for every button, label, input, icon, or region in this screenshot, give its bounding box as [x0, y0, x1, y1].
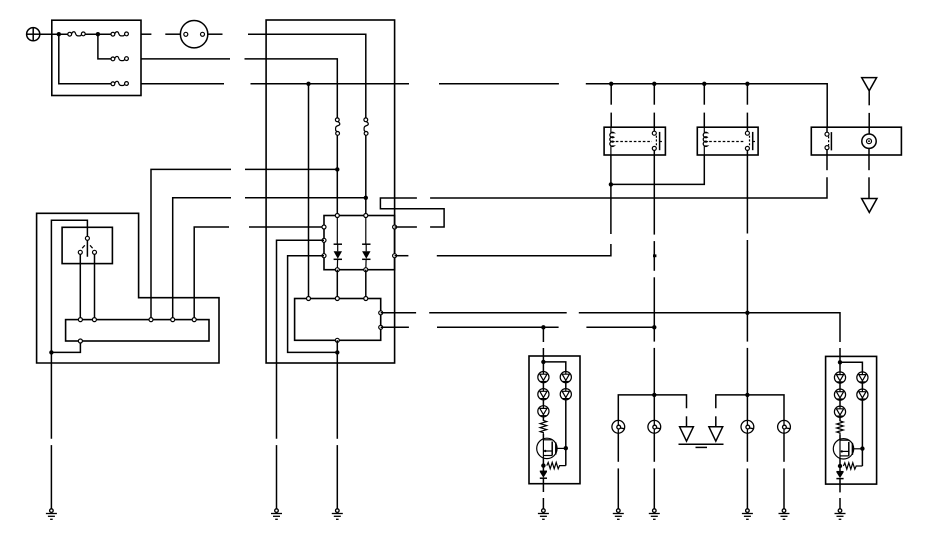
flasher terminal bottom — [335, 338, 339, 342]
wire W4 turn signal switch to relay (with connector break) — [151, 169, 337, 319]
wire fuse F4 power bus W3 (with connector breaks) — [141, 84, 827, 127]
wire relay2 contact feed (with connector break) — [746, 84, 748, 127]
wire LED unit left feed drop (with connector break) — [542, 327, 544, 356]
power antenna relay/motor box — [811, 127, 901, 155]
ground G9 (right LED unit) — [835, 509, 846, 520]
node: junction CB2 line with W5 — [364, 196, 368, 200]
wire relay box right2 to relay coils (with connector breaks) — [395, 184, 611, 255]
front turn signal bulb R2 — [778, 420, 791, 433]
wire relay box left3 joins flasher ground lead — [288, 256, 338, 353]
integrated control unit outer box — [266, 20, 395, 363]
connector terminal 2 — [92, 318, 96, 322]
relay box terminal (left 1) — [322, 225, 326, 229]
diode D1 — [334, 218, 342, 270]
wire hazard switch common feed — [51, 220, 87, 439]
wire CB1 to relay box terminal — [336, 135, 338, 215]
fuse F4 — [111, 81, 128, 85]
wire W5 turn signal switch to relay (with connector break) — [173, 198, 366, 320]
node: flasher ground junction — [335, 350, 339, 354]
node: bracket junction right — [745, 393, 749, 397]
fuse F1 — [68, 32, 85, 36]
relay R2 coil — [703, 127, 707, 155]
switch connector strip box — [66, 320, 209, 341]
relay box terminal (top 2) — [364, 214, 368, 218]
ground G6 (bulb L2) — [649, 509, 660, 520]
wire W8 left turn feed (with connector breaks) — [381, 326, 655, 328]
node: bus tap relay2 coil — [702, 82, 706, 86]
combination switch assembly outline — [37, 213, 219, 363]
wire right LED unit ground below break — [839, 498, 841, 509]
relay R1 contact — [654, 127, 662, 155]
wire F1 to F2 — [85, 33, 111, 35]
connector terminal 5 — [192, 318, 196, 322]
ground G5 (bulb L1) — [613, 509, 624, 520]
wire ignition switch to circuit breaker W1 (with connector break) — [208, 34, 366, 118]
wire bulb R2 ground lead (connector break) — [783, 433, 785, 509]
connector terminal 3 — [149, 318, 153, 322]
antenna relay terminal top — [825, 132, 829, 136]
fuse F3 — [111, 56, 128, 60]
ground G4 (left LED unit) — [538, 509, 549, 520]
wire hazard contact R to connector — [94, 254, 96, 317]
wire relay box left2 to ground G2 (with connector break) — [277, 240, 325, 509]
flasher terminal top2 — [335, 297, 339, 301]
ground G2 (relay box) — [271, 509, 282, 520]
wire W7 right turn feed (with connector breaks) — [381, 313, 840, 357]
wire relay1 coil feed (with connector break) — [610, 84, 612, 127]
front turn signal bulb R1 — [741, 420, 754, 433]
relay box terminal (left 2) — [322, 238, 326, 242]
ground G8 (bulb R2) — [779, 509, 790, 520]
fuse box (under-hood fuse/relay box) — [52, 20, 141, 95]
ground G3 (flasher) — [332, 509, 343, 520]
node: bus tap relay1 contact — [652, 82, 656, 86]
wire flasher ground lead (with connector break) — [336, 340, 338, 509]
relay R1 contact terminal bottom — [652, 146, 656, 150]
connector terminal 4 — [171, 318, 175, 322]
flasher terminal right1 — [379, 311, 383, 315]
node: junction CB1 line with W4 — [335, 167, 339, 171]
wire bulb L1 ground lead (connector break) — [617, 433, 619, 509]
relay R2 (right turn signal relay) box — [697, 127, 758, 155]
antenna relay contact — [827, 127, 831, 155]
wire antenna mast lead (with connector break) — [868, 91, 870, 134]
antenna mast symbol (top) — [862, 78, 877, 91]
flasher terminal right2 — [379, 325, 383, 329]
front turn signal bulb L1 — [612, 420, 625, 433]
wire bulb L2 ground lead (connector break) — [653, 433, 655, 509]
wire left bulb bracket — [618, 395, 686, 421]
ground G7 (bulb R1) — [742, 509, 753, 520]
relay box terminal (top 1) — [335, 214, 339, 218]
wire bulb R1 ground lead (connector break) — [746, 433, 748, 509]
hazard switch common terminal — [85, 236, 89, 240]
wire antenna motor to sub lead (with connector break) — [868, 148, 870, 198]
ground G1 (switch) — [46, 509, 57, 520]
node: junction dot A in fuse box — [57, 32, 61, 36]
node: right feed to relay2 contact line — [745, 311, 749, 315]
left rear turn signal LED unit — [529, 356, 580, 492]
node: junction dot B in fuse box — [96, 32, 100, 36]
node: bus tap relay2 contact — [745, 82, 749, 86]
wire bus tap to flasher — [308, 84, 310, 299]
hazard switch actuator (dashed) — [82, 245, 92, 248]
relay R2 contact terminal bottom — [745, 146, 749, 150]
body ground bar — [679, 444, 724, 447]
antenna motor M — [862, 134, 876, 148]
wire relay2 coil feed (with connector break) — [703, 84, 705, 127]
ignition switch terminal 1 — [184, 32, 188, 36]
relay box terminal (right 1) — [393, 225, 397, 229]
wire switch ground below connector break — [50, 445, 52, 509]
connector marker on relay1 contact wire — [653, 254, 656, 257]
hazard switch contact terminal L — [78, 250, 82, 254]
wire relay box right1 to antenna relay (Z-route, connector breaks) — [380, 155, 827, 227]
antenna relay terminal bottom — [825, 146, 829, 150]
wire left body ground leg (connector break) — [686, 416, 688, 427]
wire hazard contact L to connector — [79, 254, 81, 317]
relay R2 contact — [747, 127, 755, 155]
connector terminal 1 — [78, 318, 82, 322]
wire fuse F3 to circuit breaker W2 (with connector break) — [141, 59, 337, 118]
relay R2 contact terminal top — [745, 131, 749, 135]
wire battery to fuse box — [40, 33, 68, 35]
wire relay box bottom2 to flasher — [365, 270, 367, 299]
wire connector bottom to ground junction — [51, 343, 80, 352]
connector terminal 6 (bottom) — [78, 339, 82, 343]
hazard switch contact terminal R — [93, 250, 97, 254]
right rear turn signal LED unit — [826, 356, 877, 492]
node: left feed tap to LED unit — [541, 325, 545, 329]
wire coil junction to relay2 coil — [611, 155, 704, 184]
front turn signal bulb L2 — [648, 420, 661, 433]
wire relay1 contact down to left bulbs (connector breaks + marker) — [653, 155, 655, 420]
relay box terminal (bottom 1) — [335, 268, 339, 272]
wire fuse box row3 feed — [59, 34, 111, 84]
wire right bulb bracket — [715, 416, 717, 427]
wire relay1 coil drop — [610, 155, 612, 184]
turn signal / hazard relay box — [324, 216, 395, 270]
wire fuse box to ignition switch (with connector break) — [141, 33, 180, 35]
node: left feed joins relay1 contact line — [652, 325, 656, 329]
circuit breaker CB1 (vertical fuse symbol) — [335, 118, 339, 135]
body ground arrow right — [709, 427, 723, 441]
wire CB2 to relay box terminal — [365, 135, 367, 215]
battery positive terminal — [27, 28, 40, 41]
relay R2 actuator dashed link — [709, 141, 745, 143]
flasher unit box — [295, 299, 381, 341]
relay R1 contact terminal top — [652, 131, 656, 135]
relay R1 (left turn signal relay) box — [604, 127, 665, 155]
ignition switch — [180, 21, 207, 48]
circuit breaker CB2 (vertical fuse symbol) — [364, 118, 368, 135]
node: bus tap to flasher feed — [306, 82, 310, 86]
wire right bulb bracket top — [716, 395, 784, 421]
wire left LED unit ground below break — [542, 498, 544, 509]
node: relay coils junction — [609, 182, 613, 186]
node: bracket junction left — [652, 393, 656, 397]
wire relay box bottom1 to flasher — [336, 270, 338, 299]
hazard switch box — [62, 227, 112, 263]
relay R1 coil — [610, 127, 614, 155]
node: bus tap relay1 coil — [609, 82, 613, 86]
flasher terminal top1 — [307, 297, 311, 301]
wire fuse box row2 feed — [98, 34, 111, 59]
relay R1 actuator dashed link — [616, 141, 652, 143]
wire relay1 contact feed (with connector break) — [653, 84, 655, 127]
wire W6 hazard switch to relay box (with connector break) — [194, 227, 324, 320]
antenna sub symbol (bottom) — [862, 199, 877, 213]
flasher terminal top3 — [364, 297, 368, 301]
relay box terminal (right 2) — [393, 254, 397, 258]
body ground arrow left — [680, 427, 694, 441]
ignition switch terminal 2 — [201, 32, 205, 36]
fuse F2 — [111, 32, 128, 36]
relay box terminal (bottom 2) — [364, 268, 368, 272]
node: switch ground junction — [49, 350, 53, 354]
diode D2 — [362, 218, 370, 270]
wire relay2 contact down to right bulbs (connector breaks) — [746, 155, 748, 420]
relay box terminal (left 3) — [322, 254, 326, 258]
